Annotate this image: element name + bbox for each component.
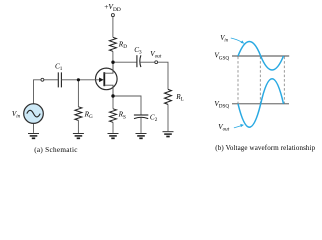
svg-text:(b) Voltage waveform relations: (b) Voltage waveform relationship xyxy=(215,144,315,152)
svg-text:(a) Schematic: (a) Schematic xyxy=(34,146,78,154)
